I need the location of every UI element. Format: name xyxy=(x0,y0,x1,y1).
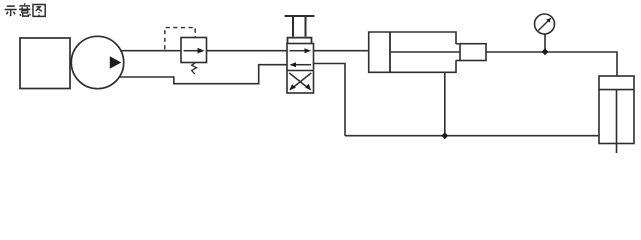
wire: valve A to cylinder cap end xyxy=(314,50,369,52)
wire: valve B down to bottom return line xyxy=(314,64,346,136)
relief valve spring xyxy=(192,63,197,74)
pressure gauge G1 xyxy=(535,14,555,34)
wire: pump lower line to valve T xyxy=(119,65,288,84)
wire: rod block to loading cylinder (with gauge tap) xyxy=(487,52,618,76)
wire: pump outlet to valve P (main pressure line) xyxy=(120,50,287,52)
junction node at gauge tap xyxy=(542,48,549,55)
valve position 2 crossed arrows xyxy=(289,73,311,91)
title text 示意图 (drawn strokes) xyxy=(5,3,46,16)
rod end block xyxy=(456,44,486,61)
directional valve U1 body (2 positions) xyxy=(287,44,314,94)
valve push-button actuator xyxy=(285,16,315,44)
wire: cylinder rod-side port down to return xyxy=(444,72,446,135)
pump flow triangle (filled) xyxy=(110,56,122,68)
relief valve internal arrow xyxy=(184,48,205,54)
cylinder piston xyxy=(389,32,391,72)
示 xyxy=(5,6,17,16)
junction node on bottom return xyxy=(441,132,448,139)
relief valve pilot line (dashed) xyxy=(165,28,195,50)
wire: bottom return line xyxy=(345,135,599,137)
valve position 1 arrows (parallel) xyxy=(290,48,312,67)
pump circle xyxy=(71,36,123,88)
tank/motor square xyxy=(20,38,70,89)
图 xyxy=(33,5,45,17)
意 xyxy=(19,3,30,16)
gauge stem xyxy=(544,34,546,52)
loading cylinder CY2 body xyxy=(599,76,634,144)
relief valve V1 body xyxy=(181,38,207,63)
cylinder rod xyxy=(390,51,460,53)
cylinder CY1 body xyxy=(369,32,456,72)
loading cylinder piston xyxy=(599,89,634,91)
loading cylinder rod xyxy=(616,90,618,153)
